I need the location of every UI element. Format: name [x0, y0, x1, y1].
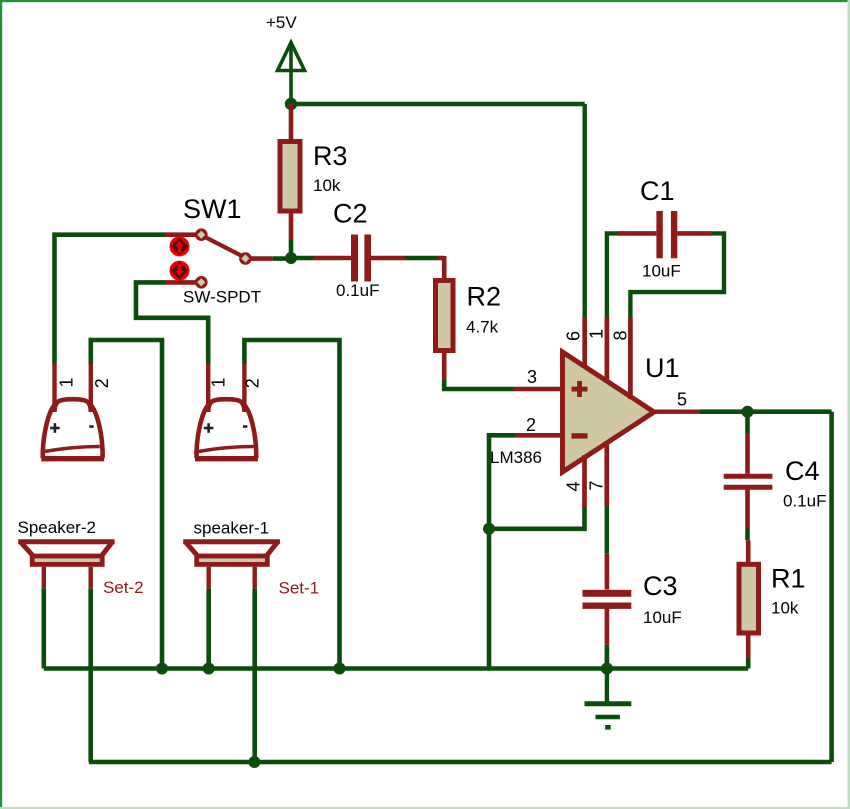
mic2 pin 1: [206, 364, 210, 410]
mic2 minus: [243, 425, 247, 428]
junction node mic1 bus: [156, 663, 168, 675]
svg-text:10uF: 10uF: [642, 262, 681, 281]
wire C2 to R2: [405, 256, 437, 261]
wire pin2: [489, 435, 515, 529]
svg-text:8: 8: [611, 330, 631, 340]
wire SW1 top throw to mic1: [55, 235, 166, 364]
capacitor C2: [314, 235, 405, 282]
op-amp U1 body: [563, 352, 655, 472]
mic1 body: [41, 399, 104, 459]
wire pin4 to pin2 node: [489, 507, 585, 529]
mic1 plus: [50, 423, 60, 433]
mic1 minus: [89, 425, 93, 428]
svg-text:2: 2: [92, 378, 112, 388]
junction node mic2 bus: [334, 663, 346, 675]
svg-text:5: 5: [677, 390, 687, 410]
svg-text:U1: U1: [645, 353, 680, 383]
mic2 pin 2: [242, 364, 246, 410]
resistor R3: [280, 104, 300, 258]
microphone MIC2 (set 1): [195, 364, 263, 459]
wire bottom return line: [89, 760, 832, 765]
pin 5 output stub: [655, 410, 700, 414]
switch actuator up: [170, 236, 190, 256]
switch SW1 lever: [204, 236, 244, 257]
svg-text:10uF: 10uF: [643, 608, 682, 627]
mic2 plus: [204, 423, 214, 433]
svg-text:+5V: +5V: [266, 13, 297, 32]
speaker-1 right leg: [252, 567, 256, 762]
wire SW1 common to node: [273, 256, 291, 261]
pin 3 stub: [514, 387, 562, 392]
pin 2 stub: [515, 433, 562, 438]
mic1 pin 1: [52, 364, 56, 410]
svg-text:3: 3: [527, 367, 537, 387]
svg-text:SW-SPDT: SW-SPDT: [183, 288, 261, 307]
speaker-1 left leg: [206, 567, 210, 669]
switch SW1 terminal top: [195, 228, 208, 241]
speaker speaker-1 symbol: [183, 542, 280, 565]
pin 7 stub: [604, 441, 609, 506]
resistor R1: [739, 540, 759, 657]
mic2 body: [195, 399, 258, 459]
wire pin1 to C1: [607, 233, 618, 317]
svg-text:2: 2: [526, 415, 536, 435]
wire +5V rail to pin6 column: [291, 102, 585, 107]
minus marker: [572, 433, 588, 438]
wire mic2 pin2 to bus: [244, 340, 339, 669]
switch SW1 terminal common: [239, 252, 252, 265]
svg-text:7: 7: [586, 481, 606, 491]
svg-text:10k: 10k: [771, 599, 799, 618]
switch actuator down: [170, 261, 190, 281]
ground: [585, 669, 632, 728]
wire ground bus: [44, 666, 748, 671]
plus marker: [572, 381, 588, 397]
svg-text:LM386: LM386: [490, 448, 542, 467]
capacitor C4: [724, 433, 773, 529]
svg-text:6: 6: [564, 331, 584, 341]
speaker-2 left leg: [42, 567, 46, 669]
speaker-2 right leg: [88, 567, 92, 762]
svg-text:C3: C3: [643, 571, 678, 601]
switch SW1 terminal bottom: [195, 276, 208, 289]
svg-text:4: 4: [564, 481, 584, 491]
svg-text:SW1: SW1: [183, 194, 242, 224]
svg-text:Set-1: Set-1: [279, 579, 320, 598]
wire node to ground bus: [487, 529, 492, 669]
pin 6 stub: [582, 317, 587, 368]
wire C2 left: [291, 256, 314, 261]
resistor R2: [436, 256, 454, 382]
junction node speaker-1 bus: [203, 663, 215, 675]
wire output to C4: [745, 412, 750, 433]
svg-text:10k: 10k: [313, 176, 341, 195]
svg-text:R1: R1: [771, 564, 806, 594]
pin 4 stub: [582, 455, 587, 507]
junction node pin2/pin4: [483, 523, 495, 535]
wire output right edge down: [829, 412, 834, 762]
svg-text:C4: C4: [785, 456, 820, 486]
svg-text:0.1uF: 0.1uF: [336, 281, 379, 300]
junction node output: [742, 406, 754, 418]
switch SW1 top stub: [166, 232, 197, 237]
wire C1 right to pin8: [630, 233, 724, 317]
wire C3 to bus: [605, 645, 610, 669]
svg-text:0.1uF: 0.1uF: [783, 492, 826, 511]
microphone MIC1 (set 2): [41, 364, 112, 459]
svg-text:C2: C2: [333, 199, 368, 229]
wire R1 to bus: [746, 657, 751, 668]
wire SW1 bottom throw to mic2: [136, 282, 208, 363]
power symbol +5V: [278, 43, 305, 105]
speaker Speaker-2 symbol: [18, 542, 114, 565]
svg-text:R2: R2: [467, 282, 502, 312]
svg-text:speaker-1: speaker-1: [194, 519, 270, 538]
svg-text:1: 1: [57, 377, 77, 387]
mic1 pin 2: [89, 364, 93, 410]
pin 1 stub: [605, 317, 610, 383]
svg-text:Speaker-2: Speaker-2: [18, 518, 96, 537]
svg-text:R3: R3: [313, 141, 348, 171]
switch SW1 bottom stub: [166, 280, 197, 285]
capacitor C1: [618, 211, 712, 258]
capacitor C3: [583, 554, 632, 645]
svg-text:2: 2: [243, 378, 263, 388]
junction node at +5V rail: [285, 98, 297, 110]
wire C4 to R1: [745, 529, 750, 541]
wire R2 to pin3: [444, 380, 514, 389]
wire output node: [700, 409, 832, 414]
svg-text:C1: C1: [640, 176, 675, 206]
junction node C3/ground: [601, 663, 613, 675]
junction node bottom return: [248, 756, 260, 768]
wire pin7 to C3: [605, 506, 609, 554]
wire pin6 vertical: [583, 104, 587, 317]
svg-text:4.7k: 4.7k: [466, 318, 499, 337]
wire mic1 pin2 to bus: [91, 340, 162, 669]
pin 8 stub: [628, 317, 633, 399]
svg-text:1: 1: [587, 329, 607, 339]
switch SW1 common stub: [250, 256, 273, 261]
svg-text:1: 1: [209, 377, 229, 387]
svg-text:Set-2: Set-2: [103, 578, 144, 597]
junction node R3 / SW1 / C2: [285, 252, 297, 264]
